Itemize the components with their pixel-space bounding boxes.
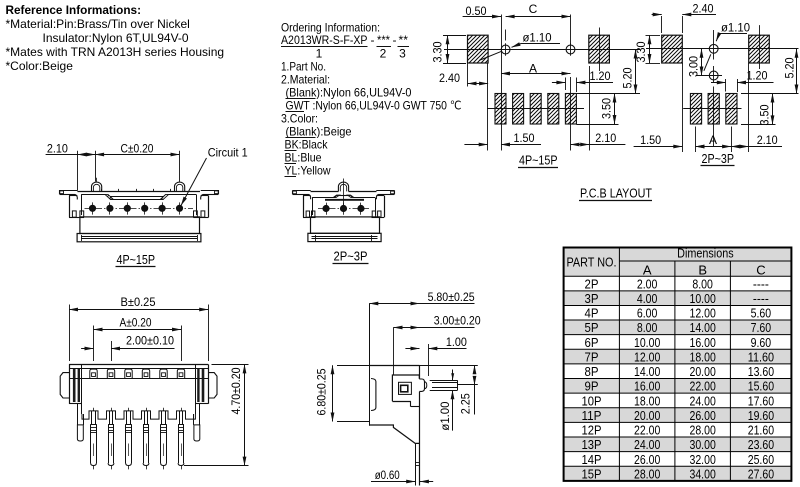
front view 2P~3P : hatched step right	[348, 195, 355, 198]
svg-text:30.00: 30.00	[690, 437, 716, 452]
svg-text:28.00: 28.00	[690, 423, 716, 438]
pcb layout 2P~3P : dim 3.00	[701, 49, 703, 76]
svg-text:P.C.B LAYOUT: P.C.B LAYOUT	[580, 186, 652, 201]
pcb layout 2P~3P : slot row centerline	[683, 108, 741, 110]
pcb layout 4P~15P : dim 3.50	[576, 124, 618, 126]
svg-text:25.60: 25.60	[748, 452, 774, 467]
front view 4P~15P : left mounting wing	[60, 190, 78, 192]
svg-text:21.60: 21.60	[748, 423, 774, 438]
reference information text block	[6, 3, 225, 73]
svg-text:32.00: 32.00	[690, 452, 716, 467]
svg-text:13.60: 13.60	[748, 364, 774, 379]
svg-text:2P~3P: 2P~3P	[334, 249, 368, 264]
front view 4P~15P : left feet	[72, 211, 76, 217]
svg-text:9.60: 9.60	[751, 335, 772, 350]
top view : dim 4.70+-0.20	[212, 364, 249, 366]
svg-text:3P: 3P	[585, 291, 599, 306]
svg-text:1.50: 1.50	[640, 133, 661, 147]
svg-text:22.00: 22.00	[634, 423, 660, 438]
front view 4P~15P : housing outer walls	[69, 196, 71, 218]
side view : mating pin rod	[430, 380, 458, 382]
svg-text:2P~3P: 2P~3P	[702, 151, 735, 166]
pcb layout 2P~3P : dim 1.50	[634, 146, 683, 148]
pcb layout 2P~3P : dim A	[696, 146, 732, 148]
svg-text:6P: 6P	[585, 335, 599, 350]
front view 2P~3P : housing outer walls	[303, 196, 305, 218]
side view : dim 6.80+-0.25	[337, 365, 369, 367]
svg-text:Reference Informations:: Reference Informations:	[6, 3, 142, 17]
svg-text:9P: 9P	[585, 379, 599, 394]
svg-text:Insulator:Nylon 6T,UL94V-0: Insulator:Nylon 6T,UL94V-0	[43, 31, 189, 45]
svg-text:12.00: 12.00	[690, 306, 716, 321]
svg-text:ø0.60: ø0.60	[375, 468, 400, 482]
svg-text:A2013WR-S-F-XP: A2013WR-S-F-XP	[281, 33, 368, 47]
front view 2P~3P : lower block	[311, 217, 380, 233]
svg-text:13P: 13P	[582, 437, 602, 452]
svg-text:4.70±0.20: 4.70±0.20	[229, 367, 243, 414]
pcb layout 4P~15P : right hole (dia 1.10)	[566, 45, 575, 54]
svg-text:5.60: 5.60	[751, 306, 772, 321]
pcb layout 4P~15P : slot row centerline	[487, 108, 584, 110]
pcb layout 4P~15P : extension line through right hole	[570, 15, 572, 46]
front view 4P~15P : left polarizing boss	[92, 182, 102, 191]
svg-text:7.60: 7.60	[751, 320, 772, 335]
pcb layout 2P~3P : right pad centerline	[759, 25, 761, 69]
front view 2P~3P : right mounting wing	[376, 190, 394, 192]
svg-text:4P: 4P	[585, 306, 599, 321]
pcb layout 2P~3P : top hole (dia 1.10)	[709, 44, 718, 53]
svg-text:2.Material:: 2.Material:	[281, 73, 330, 87]
pcb layout 4P~15P : dim 5.20	[576, 93, 640, 95]
svg-text:2P: 2P	[585, 276, 599, 291]
pcb layout 2P~3P : dim 5.20	[741, 93, 799, 95]
svg-text:4P~15P: 4P~15P	[117, 252, 156, 267]
svg-text:18.00: 18.00	[690, 349, 716, 364]
top view : housing outline	[69, 364, 208, 366]
side view : metal clip (side)	[371, 379, 376, 411]
front view 2P~3P : hatched step left	[333, 195, 340, 198]
svg-text:A: A	[643, 262, 652, 277]
svg-text:3.00: 3.00	[687, 56, 701, 77]
pcb layout 2P~3P : left pad (hatched)	[662, 35, 683, 63]
svg-text:2.00±0.10: 2.00±0.10	[126, 333, 174, 347]
svg-text:34.00: 34.00	[690, 466, 716, 481]
pcb layout 4P~15P : dim 2.10	[571, 144, 590, 146]
svg-text:2.10: 2.10	[595, 131, 616, 145]
svg-text:15.60: 15.60	[748, 379, 774, 394]
svg-text:2.10: 2.10	[757, 133, 778, 147]
front view 4P~15P : right feet	[194, 211, 198, 217]
svg-text:C±0.20: C±0.20	[121, 141, 154, 155]
pcb layout 2P~3P : dim 3.30 (pad height)	[646, 35, 661, 37]
front view 4P~15P : base	[77, 234, 201, 242]
svg-text:4.00: 4.00	[637, 291, 658, 306]
svg-text:1.50: 1.50	[514, 131, 535, 145]
svg-text:2.00: 2.00	[637, 276, 658, 291]
pcb layout 4P~15P : dim 2.40 (pad width)	[467, 63, 469, 87]
svg-text:6.00: 6.00	[637, 306, 658, 321]
svg-text:24.00: 24.00	[690, 393, 716, 408]
svg-text:(Blank):Nylon 66,UL94V-0: (Blank):Nylon 66,UL94V-0	[286, 86, 412, 100]
svg-text:1.Part No.: 1.Part No.	[281, 60, 326, 74]
pcb layout 4P~15P : extension line left of left hole	[501, 15, 503, 151]
svg-text:1.00: 1.00	[446, 335, 467, 349]
front view 4P~15P : flange top edge	[77, 191, 200, 193]
top view : right clip hatch	[202, 369, 205, 402]
pcb layout 4P~15P : left pad (hatched)	[468, 35, 489, 63]
svg-text:3.50: 3.50	[758, 104, 772, 125]
svg-text:5P: 5P	[585, 320, 599, 335]
side view : dim phi 1.00	[452, 370, 454, 381]
svg-text:*Material:Pin:Brass/Tin over N: *Material:Pin:Brass/Tin over Nickel	[6, 17, 190, 31]
svg-text:26.00: 26.00	[690, 408, 716, 423]
pcb layout 4P~15P : solder slots (hatched)	[495, 94, 506, 125]
side view : terminal cavity	[399, 382, 412, 394]
svg-text:1.20: 1.20	[590, 69, 611, 83]
top view : left clip hatch	[73, 369, 76, 402]
top view : bottom comb edge	[82, 411, 195, 419]
top view : left metal clip bump	[60, 373, 69, 398]
front view 4P~15P : extension lines	[77, 151, 79, 191]
pcb layout 2P~3P : bottom hole (dia 1.10)	[709, 71, 718, 80]
svg-text:2.25: 2.25	[459, 393, 473, 414]
pcb layout 4P~15P : dim 1.20 (slot width)	[565, 78, 567, 91]
svg-text:16.00: 16.00	[690, 335, 716, 350]
dimensions table	[564, 245, 792, 481]
side view : body outline	[369, 365, 419, 367]
top view : flange inner edge	[69, 378, 208, 380]
svg-text:-: -	[393, 33, 397, 47]
pcb layout 2P~3P : dim 2.40 (pad width)	[661, 16, 663, 33]
svg-text:16.00: 16.00	[634, 379, 660, 394]
svg-text:6.80±0.25: 6.80±0.25	[315, 368, 329, 415]
svg-text:3.30: 3.30	[634, 41, 648, 62]
pcb layout 4P~15P : dim 3.30 (pad height)	[443, 35, 466, 37]
pcb layout 2P~3P : vertical line through holes	[713, 30, 715, 60]
svg-text:B: B	[698, 262, 707, 277]
pcb layout 2P~3P : dim 1.20 (slot width)	[725, 79, 727, 92]
pcb layout 2P~3P : solder slots (hatched)	[690, 94, 701, 125]
front view 4P~15P : cavity top edges	[81, 194, 105, 196]
front view 2P~3P : left mounting wing	[293, 190, 311, 192]
svg-text:1: 1	[316, 47, 323, 61]
svg-text:15P: 15P	[582, 466, 602, 481]
svg-text:**: **	[399, 33, 409, 47]
svg-text:22.00: 22.00	[690, 379, 716, 394]
pcb layout 4P~15P : horizontal centerline	[444, 49, 640, 51]
svg-text:5.20: 5.20	[621, 67, 635, 88]
svg-text:12.00: 12.00	[634, 349, 660, 364]
top view : left side peg	[77, 404, 79, 425]
svg-text:1.20: 1.20	[747, 68, 768, 82]
svg-text:0.50: 0.50	[466, 4, 487, 18]
svg-text:B±0.25: B±0.25	[121, 295, 156, 309]
svg-text:2: 2	[380, 47, 387, 61]
front view 2P~3P : pin centerline (dash-dot)	[318, 208, 369, 210]
svg-text:C: C	[529, 2, 538, 16]
svg-text:14.00: 14.00	[634, 364, 660, 379]
svg-text:26.00: 26.00	[634, 452, 660, 467]
svg-text:20.00: 20.00	[690, 364, 716, 379]
svg-text:10P: 10P	[582, 393, 602, 408]
pcb layout 4P~15P : right pad centerline	[599, 28, 601, 72]
pcb layout 4P~15P : right pad (hatched)	[589, 35, 610, 63]
svg-text:10.00: 10.00	[690, 291, 716, 306]
svg-text:10.00: 10.00	[634, 335, 660, 350]
pcb layout 2P~3P : horizontal centerline	[646, 48, 799, 50]
svg-text:8.00: 8.00	[692, 276, 713, 291]
svg-text:2.10: 2.10	[47, 141, 68, 155]
front view 2P~3P : right feet	[372, 211, 375, 217]
svg-text:7P: 7P	[585, 349, 599, 364]
svg-text:28.00: 28.00	[634, 466, 660, 481]
svg-text:3.Color:: 3.Color:	[281, 112, 318, 126]
side view : bushing	[419, 379, 424, 391]
front view 4P~15P : right mounting wing	[201, 190, 219, 192]
svg-text:2.40: 2.40	[439, 71, 460, 85]
svg-text:3.30: 3.30	[431, 41, 445, 62]
svg-text:3.00±0.20: 3.00±0.20	[434, 314, 481, 328]
top view : right side peg	[199, 404, 201, 425]
svg-text:18.00: 18.00	[634, 393, 660, 408]
front view 2P~3P : left feet	[306, 211, 309, 217]
front view 2P~3P : flange top edge	[311, 191, 339, 193]
top view : terminal pockets on top edge	[90, 369, 97, 378]
svg-text:8.00: 8.00	[637, 320, 658, 335]
svg-text:11P: 11P	[582, 408, 602, 423]
svg-text:YL:Yellow: YL:Yellow	[285, 164, 331, 178]
front view 2P~3P : polarizing boss	[338, 182, 348, 191]
svg-text:BK:Black: BK:Black	[285, 138, 329, 152]
pcb layout 4P~15P : extension from right pad left edge	[589, 66, 591, 151]
svg-text:*Mates with TRN A2013H series: *Mates with TRN A2013H series Housing	[6, 45, 225, 59]
front view 2P~3P : base	[308, 233, 381, 241]
svg-text:ø1.00: ø1.00	[438, 401, 452, 430]
svg-text:*Color:Beige: *Color:Beige	[6, 59, 74, 73]
front view 4P~15P : right polarizing boss	[175, 182, 185, 191]
svg-text:19.60: 19.60	[748, 408, 774, 423]
svg-text:8P: 8P	[585, 364, 599, 379]
svg-text:PART NO.: PART NO.	[567, 255, 617, 270]
svg-text:14P: 14P	[582, 452, 602, 467]
svg-text:Dimensions: Dimensions	[677, 245, 734, 260]
pcb layout 2P~3P : dim 3.50	[741, 124, 776, 126]
svg-text:20.00: 20.00	[634, 408, 660, 423]
svg-text:11.60: 11.60	[748, 349, 774, 364]
side view : pin cross-section	[401, 385, 408, 392]
svg-text:BL:Blue: BL:Blue	[285, 151, 322, 165]
ordering information block	[281, 21, 462, 178]
front view 4P~15P : hatched step right	[161, 194, 169, 199]
pcb layout 2P~3P : right pad (hatched)	[749, 35, 770, 63]
svg-text:A: A	[709, 133, 717, 147]
side view : dim 2.25	[420, 365, 478, 367]
svg-text:24.00: 24.00	[634, 437, 660, 452]
svg-text:5.80±0.25: 5.80±0.25	[428, 290, 475, 304]
front view 2P~3P : pins	[326, 203, 328, 215]
top view : right metal clip bump	[208, 373, 217, 398]
svg-text:Circuit 1: Circuit 1	[208, 145, 248, 159]
pcb layout 2P~3P : dim 2.10	[731, 146, 749, 148]
pcb layout 4P~15P : dim 1.50	[464, 144, 487, 146]
svg-text:23.60: 23.60	[748, 437, 774, 452]
top view : pins	[93, 408, 95, 411]
front view 4P~15P : pin centerline (dash-dot)	[85, 208, 194, 210]
svg-text:ø1.10: ø1.10	[523, 31, 552, 45]
svg-text:----: ----	[753, 276, 769, 291]
side view : solder tail pin	[415, 443, 417, 485]
pcb layout 2P~3P : bottom extension lines	[682, 63, 684, 152]
svg-text:C: C	[756, 262, 765, 277]
front view 4P~15P : lower block	[80, 217, 200, 234]
svg-text:ø1.10: ø1.10	[721, 20, 750, 34]
front view 4P~15P : pins	[92, 202, 94, 214]
svg-text:----: ----	[753, 291, 769, 306]
svg-text:12P: 12P	[582, 423, 602, 438]
svg-text:A±0.20: A±0.20	[120, 316, 152, 330]
svg-text:***: ***	[377, 33, 390, 47]
svg-text:2.40: 2.40	[693, 1, 714, 15]
svg-text:17.60: 17.60	[748, 393, 774, 408]
svg-text:5.20: 5.20	[783, 57, 797, 78]
svg-text:(Blank):Beige: (Blank):Beige	[286, 125, 352, 139]
side view : center block	[392, 375, 419, 401]
svg-text:27.60: 27.60	[748, 466, 774, 481]
svg-text:14.00: 14.00	[690, 320, 716, 335]
svg-text:4P~15P: 4P~15P	[519, 153, 558, 168]
svg-text:-: -	[371, 33, 375, 47]
svg-text:3: 3	[399, 47, 406, 61]
svg-text:3.50: 3.50	[600, 98, 614, 119]
front view 4P~15P : hatched step left	[105, 194, 113, 199]
front view 4P~15P : flange tick marks	[101, 189, 103, 192]
svg-text:GWT :Nylon 66,UL94V-0 GWT 750: GWT :Nylon 66,UL94V-0 GWT 750 ℃	[286, 99, 462, 113]
front view 2P~3P : boss centerline	[343, 179, 345, 207]
front view 2P~3P : cavity top edges	[312, 197, 333, 199]
pcb layout 4P~15P : left hole (dia 1.10)	[501, 45, 510, 54]
